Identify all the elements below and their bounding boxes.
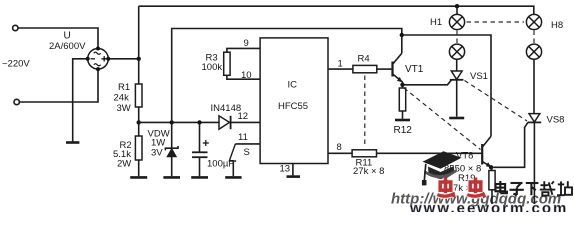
node zener tap [170, 120, 174, 124]
diode IN4148 [219, 116, 260, 129]
wire pin 13 [292, 164, 294, 176]
ground (bridge minus) [66, 141, 79, 144]
dashed link VS1 to VS8 [465, 81, 528, 122]
wire R11 to VT8 base [377, 152, 482, 154]
watermark char zhan [557, 181, 572, 195]
wire T1 to bridge top [18, 28, 98, 48]
thyristor VS1 [450, 59, 464, 116]
ground (zener) [163, 176, 180, 179]
svg-text:H8: H8 [551, 20, 563, 31]
svg-text:2W: 2W [117, 158, 131, 169]
wire pin 1 [328, 68, 353, 70]
wire pin 8 [328, 152, 352, 154]
svg-text:10: 10 [241, 70, 252, 81]
resistor R19 [489, 167, 495, 204]
capacitor C1 100uF [192, 122, 209, 176]
svg-text:VT8: VT8 [456, 150, 473, 161]
wire pin 10 [227, 75, 260, 79]
wire H1 stub [456, 6, 458, 14]
watermark red bug char 2 [467, 178, 485, 198]
svg-text:R4: R4 [358, 54, 370, 65]
wire T2 to bridge bottom [20, 69, 98, 102]
ground (cap) [191, 176, 208, 179]
node VT8 emitter [489, 165, 493, 169]
svg-text:27k × 8: 27k × 8 [353, 166, 384, 177]
dashed link VT1 to VT8 [404, 88, 481, 150]
ground (R12) [395, 119, 410, 122]
watermark char xia [526, 183, 539, 195]
svg-text:~220V: ~220V [2, 59, 30, 70]
wire pin 9 [227, 48, 260, 52]
resistor R1 [135, 59, 142, 123]
wire collector bus to VT8 [402, 35, 491, 136]
lamp L2R (channel8 second) [526, 44, 541, 59]
svg-text:8: 8 [337, 142, 342, 153]
wire lamp L2R to VS8 [533, 59, 535, 113]
svg-text:VS1: VS1 [470, 71, 488, 82]
wire bridge minus to ground [73, 59, 88, 142]
ground (switch) [225, 176, 241, 179]
wire VT8 emitter to VS8 gate [493, 123, 528, 168]
svg-text:H1: H1 [430, 17, 442, 28]
watermark char zai [540, 181, 556, 195]
resistor R11 [352, 150, 376, 157]
wire R4 to VT1 base [377, 68, 392, 70]
svg-text:3V: 3V [151, 147, 163, 158]
transistor VT1 [391, 53, 402, 85]
wire VT1 emitter to VS1 gate [403, 80, 452, 85]
wire top rail [139, 6, 534, 14]
terminal T2 (AC input bottom) [14, 99, 19, 104]
wire bridge plus to node [108, 58, 138, 60]
wire +3V rail [139, 121, 219, 123]
node cap tap [197, 120, 201, 124]
zener diode VDW [165, 122, 178, 176]
watermark red bug char 1 [437, 178, 454, 197]
dashed link R4 to R11 [364, 76, 366, 148]
svg-text:11: 11 [238, 132, 248, 143]
svg-text:HFC55: HFC55 [278, 101, 308, 112]
dashed link H1 to H8 [467, 21, 525, 23]
svg-text:IC: IC [288, 80, 298, 91]
svg-text:R12: R12 [394, 125, 413, 136]
resistor R4 [353, 65, 377, 72]
node rail R1/R2 [137, 120, 141, 124]
ground (VS1) [449, 117, 464, 120]
svg-text:VS8: VS8 [547, 115, 565, 126]
svg-text:VT1: VT1 [405, 64, 424, 75]
transistor VT8 [481, 136, 491, 167]
ground (pin 13) [287, 175, 301, 178]
wire pin 11 [235, 143, 260, 145]
node VT1 emitter [400, 83, 404, 87]
svg-text:2A/600V: 2A/600V [49, 41, 86, 52]
svg-text:3W: 3W [117, 103, 131, 114]
bridge rectifier U [86, 47, 111, 72]
svg-text:24k: 24k [114, 93, 130, 104]
watermark char dian [496, 181, 507, 193]
node top rail H1 [455, 4, 459, 8]
svg-text:100k: 100k [202, 62, 223, 73]
resistor R12 [399, 85, 405, 119]
lamp L2 (channel1 second) [449, 44, 464, 59]
svg-text:9: 9 [244, 38, 249, 49]
svg-text:S: S [244, 147, 250, 158]
wire DC+ up to top rail [138, 6, 140, 59]
resistor R2 [135, 122, 142, 176]
switch S [229, 144, 237, 176]
op-amp U1 IC HFC55 box [260, 38, 328, 164]
svg-text:www.eeworm.com: www.eeworm.com [409, 200, 568, 212]
node VT1 collector branch [400, 33, 404, 37]
watermark graduation cap [422, 151, 462, 185]
wire supply riser [172, 29, 402, 123]
lamp H8 [526, 14, 541, 29]
node DC+ [137, 57, 141, 61]
watermark char zi [510, 183, 524, 195]
ground (R2) [130, 176, 147, 179]
lamp H1 [449, 14, 464, 29]
svg-text:13: 13 [280, 163, 291, 174]
svg-text:1: 1 [338, 58, 343, 69]
dashed link H8 column [533, 31, 535, 44]
svg-text:R1: R1 [118, 82, 130, 93]
dashed link H1 column [456, 31, 458, 44]
svg-text:12: 12 [238, 111, 249, 122]
thyristor VS8 [528, 114, 542, 204]
terminal T1 (AC input top) [13, 25, 18, 30]
resistor R3 [224, 52, 230, 75]
